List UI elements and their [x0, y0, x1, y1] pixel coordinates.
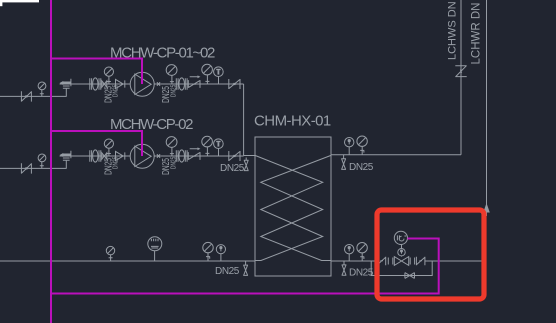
- pressure gauge (bottom line, mid): [203, 242, 213, 261]
- bypass valve: [405, 273, 415, 279]
- flange pair (control valve inlet): [388, 258, 393, 265]
- magenta branch to pump 2: [51, 131, 142, 156]
- air vent (HX top-right): [341, 155, 346, 170]
- svg-text:DN25: DN25: [349, 162, 374, 173]
- gate valve 1 (before control valve): [377, 257, 385, 265]
- svg-text:LCHWR DN: LCHWR DN: [471, 3, 483, 65]
- heat exchanger plate zigzag B: [261, 155, 331, 260]
- magenta branch to pump 1: [51, 59, 142, 85]
- flange pair (control valve outlet): [410, 258, 414, 265]
- svg-text:DN25: DN25: [215, 266, 240, 277]
- gate valve 2 (after control valve): [416, 257, 425, 265]
- wire: row1 discharge drop to common header: [243, 84, 245, 156]
- pressure gauge (bottom line, left): [106, 246, 114, 261]
- air vent (HX inlet): [244, 158, 249, 171]
- flow meter (bottom line): [148, 237, 162, 261]
- wire: bottom return line from plant: [0, 260, 255, 262]
- svg-text:LCHWS DN: LCHWS DN: [446, 1, 458, 60]
- flow arrow (LCHWR riser): [484, 205, 489, 213]
- wire: control valve line to red box edge: [425, 260, 483, 262]
- white window sliver top-left: [0, 0, 39, 6]
- svg-text:CHM-HX-01: CHM-HX-01: [254, 113, 331, 130]
- air vent (bottom line before HX): [243, 261, 248, 275]
- pump row 2 piping (MCHW-CP-02): [0, 136, 244, 175]
- svg-text:DN25: DN25: [349, 267, 374, 278]
- heat exchanger plate zigzag A: [255, 155, 323, 260]
- svg-text:DN25: DN25: [220, 163, 245, 174]
- temperature controller circle: [394, 231, 407, 248]
- control valve positioner: [398, 249, 405, 257]
- wire: bypass drop tee: [371, 261, 432, 276]
- pressure gauge (HX top-right): [357, 136, 367, 155]
- LCHWS riser with corner: [460, 0, 462, 155]
- heat exchanger CHM-HX-01 shell: [255, 137, 331, 276]
- thermometer (bottom line, mid): [216, 245, 225, 261]
- wire: HX top-right port to LCHWS riser: [331, 154, 461, 156]
- control valve body: [394, 257, 408, 266]
- wire: common header into heat exchanger top-left port: [244, 155, 255, 157]
- pressure gauge (HX bottom-right): [357, 243, 367, 262]
- pump row 1 piping (MCHW-CP-01~02): [0, 64, 244, 103]
- magenta control loop to temperature controller: [51, 239, 439, 294]
- gate valve (LCHWS riser, rotated): [455, 66, 466, 77]
- wire: HX bottom-right port to control valve set: [331, 260, 377, 262]
- magenta control trunk line: [50, 0, 52, 323]
- air vent (HX bottom-right): [342, 261, 347, 275]
- thermometer (HX bottom-right): [345, 245, 354, 262]
- LCHWR riser: [486, 0, 488, 216]
- red highlight rectangle: [377, 210, 484, 299]
- thermometer (HX top-right): [345, 138, 354, 155]
